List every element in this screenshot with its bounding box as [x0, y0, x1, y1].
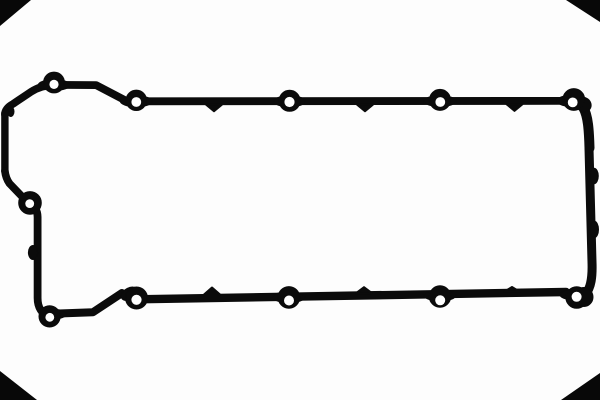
boss blend ellipse T1 [38, 80, 70, 91]
bolt hole B5 [572, 292, 582, 302]
bottom tab 1 [204, 288, 220, 295]
bolt hole B1 [45, 313, 54, 322]
corner wedge top-right [566, 0, 600, 22]
bolt hole T3 [284, 97, 294, 107]
bottom-right corner filler [575, 288, 593, 307]
bolt hole boss T5 [563, 89, 585, 111]
boss blend ellipse T2 [120, 96, 152, 107]
boss blend ellipse T4 [424, 96, 456, 107]
bolt hole boss B3 [278, 287, 300, 309]
boss blend ellipse T5 [557, 96, 583, 107]
boss blend ellipse B2 [119, 284, 140, 303]
inner step bump top-left [8, 107, 14, 117]
corner wedge top-left [0, 0, 31, 26]
bolt hole boss B2 [126, 287, 148, 309]
bolt hole T1 [49, 80, 58, 89]
corner wedge bottom-left [0, 371, 37, 400]
gasket bottom-left run and diagonal [52, 293, 122, 314]
left edge bump [28, 246, 37, 260]
bolt hole boss B1 [39, 306, 60, 327]
bottom tab 2 [356, 287, 372, 293]
boss blend ellipse T3 [274, 96, 306, 107]
bolt hole boss T2 [126, 90, 146, 110]
gasket right band and bottom-right corner [577, 148, 592, 297]
bolt hole T5 [568, 98, 578, 108]
bolt hole boss B4 [429, 286, 450, 307]
corner wedge bottom-right [561, 373, 600, 400]
gasket left kink diagonal [5, 171, 22, 197]
gasket top band [54, 85, 560, 101]
bolt hole L1 [25, 199, 34, 208]
gasket top-left corner curve [5, 85, 54, 115]
boss blend ellipse B5 [560, 289, 586, 299]
boss blend ellipse B3 [273, 292, 305, 303]
bolt hole boss T4 [430, 89, 451, 110]
gasket left lower vertical run [29, 203, 49, 316]
bolt hole boss B5 [566, 287, 588, 309]
bolt hole B2 [131, 295, 141, 305]
top-right corner lobe [573, 94, 594, 114]
boss blend ellipse B1 [42, 309, 66, 319]
top tab 1 [206, 105, 222, 112]
top tab 3 [507, 104, 523, 111]
bolt hole boss T3 [279, 90, 300, 111]
bolt hole boss T1 [44, 72, 65, 93]
bottom tab 3 [504, 287, 520, 292]
bolt hole B3 [284, 296, 294, 306]
gasket left vertical run [1, 113, 8, 171]
bolt hole T2 [131, 97, 141, 107]
top tab 2 [357, 105, 373, 112]
bolt hole boss L1 [19, 192, 42, 215]
bolt hole T4 [435, 97, 445, 107]
boss blend ellipse B4 [424, 290, 456, 301]
bolt hole B4 [435, 295, 445, 305]
gasket bottom band [137, 292, 567, 299]
right bump 2 [590, 221, 598, 237]
gasket top-right corner [574, 100, 590, 148]
right bump 1 [590, 168, 599, 183]
